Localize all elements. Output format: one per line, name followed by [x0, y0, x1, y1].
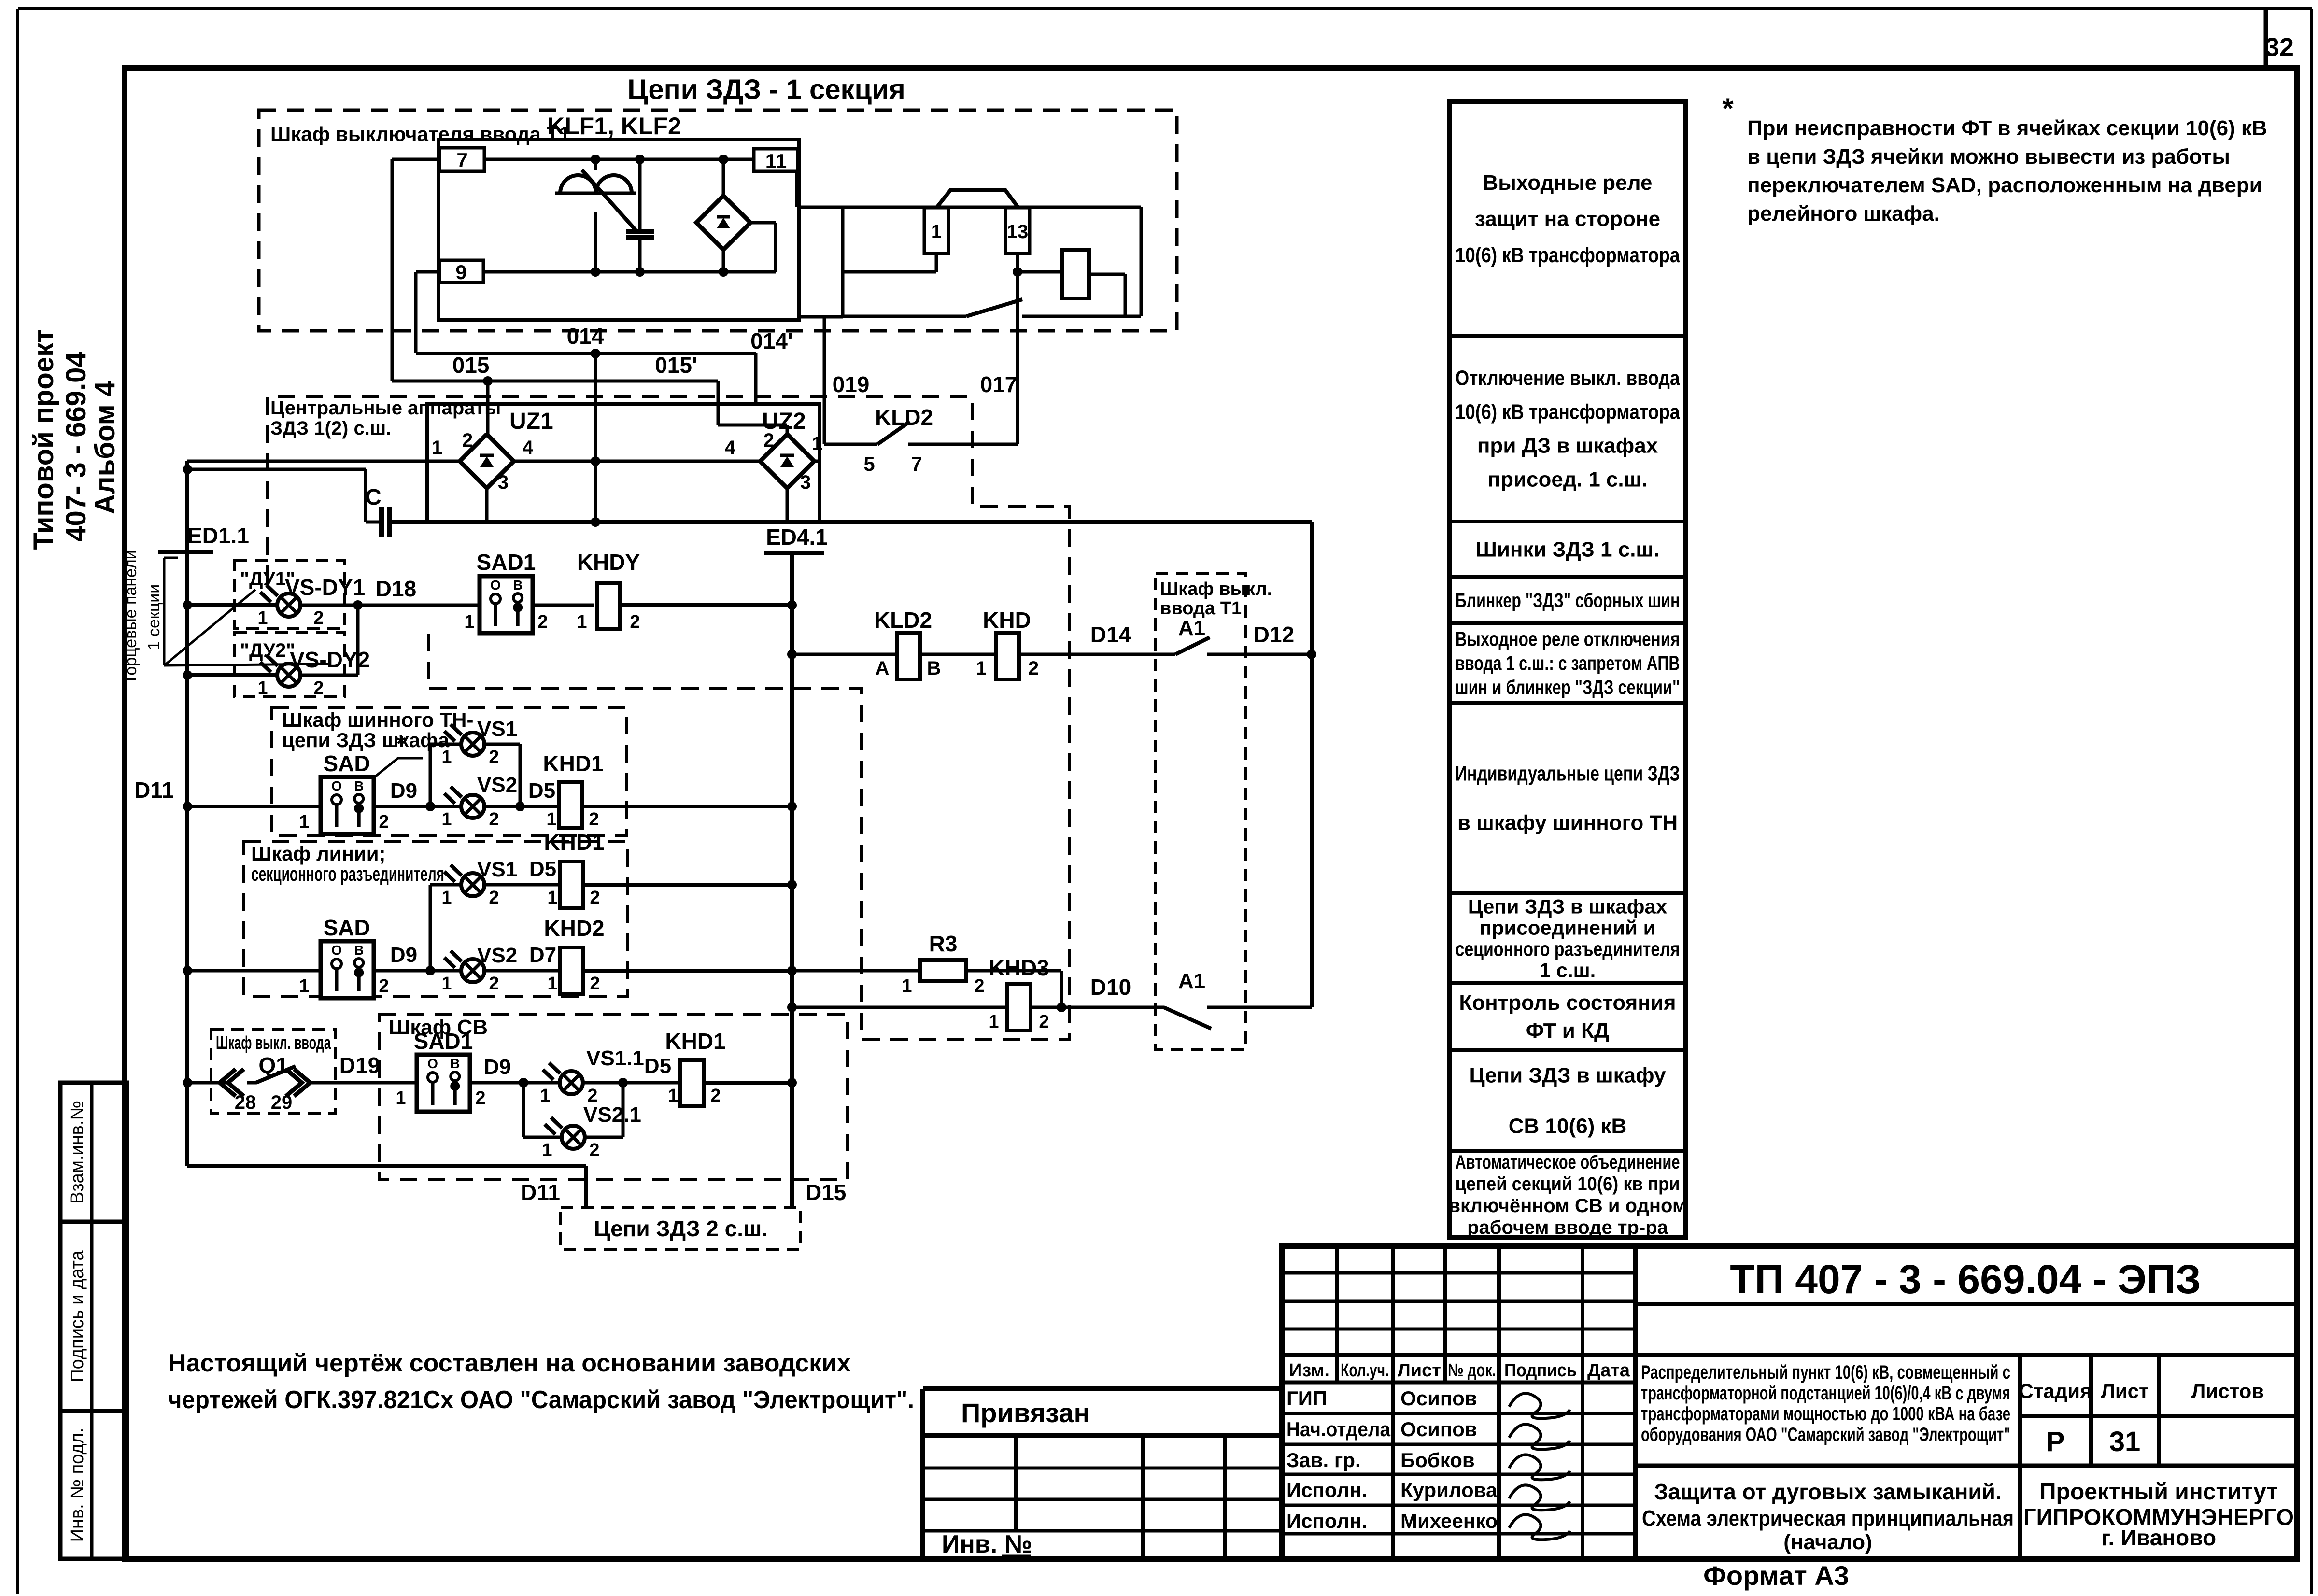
svg-text:3: 3	[800, 472, 811, 493]
svg-text:ввода Т1: ввода Т1	[1160, 598, 1242, 619]
svg-text:D11: D11	[521, 1180, 560, 1205]
svg-text:чертежей ОГК.397.821Сх ОАО "Са: чертежей ОГК.397.821Сх ОАО "Самарский за…	[168, 1386, 914, 1414]
svg-text:D5: D5	[529, 857, 556, 881]
svg-text:Центральные аппараты: Центральные аппараты	[270, 397, 501, 419]
svg-text:D5: D5	[644, 1054, 671, 1078]
svg-text:Осипов: Осипов	[1400, 1418, 1477, 1441]
svg-text:Автоматическое объединение: Автоматическое объединение	[1456, 1152, 1680, 1173]
svg-text:1: 1	[257, 608, 268, 628]
svg-text:R3: R3	[929, 931, 958, 956]
svg-text:Взам.инв.№: Взам.инв.№	[67, 1101, 87, 1204]
svg-text:D10: D10	[1090, 975, 1131, 1000]
svg-text:2: 2	[379, 976, 389, 996]
svg-text:Привязан: Привязан	[961, 1398, 1090, 1428]
svg-text:Инв. №: Инв. №	[942, 1530, 1032, 1558]
svg-text:2: 2	[489, 747, 499, 767]
svg-text:Михеенко: Михеенко	[1400, 1510, 1498, 1532]
svg-text:1: 1	[432, 437, 442, 458]
svg-text:1: 1	[547, 974, 557, 994]
svg-text:015: 015	[452, 353, 490, 378]
svg-text:*: *	[1722, 92, 1734, 125]
svg-text:KLF1, KLF2: KLF1, KLF2	[547, 113, 681, 140]
svg-text:KHD3: KHD3	[989, 955, 1049, 980]
svg-text:2: 2	[489, 888, 499, 908]
svg-text:1: 1	[668, 1086, 678, 1106]
svg-text:№ док.: № док.	[1448, 1360, 1496, 1381]
svg-text:9: 9	[455, 261, 466, 283]
svg-text:1: 1	[547, 888, 557, 908]
svg-text:SAD1: SAD1	[414, 1029, 473, 1054]
svg-text:Зав. гр.: Зав. гр.	[1286, 1449, 1361, 1471]
svg-text:Р: Р	[2046, 1426, 2065, 1457]
svg-text:присоединений и: присоединений и	[1480, 917, 1656, 939]
svg-text:017: 017	[980, 372, 1018, 397]
svg-text:SAD: SAD	[323, 915, 370, 940]
svg-text:Курилова: Курилова	[1400, 1479, 1498, 1501]
svg-text:1: 1	[989, 1012, 999, 1032]
svg-text:О: О	[490, 578, 501, 593]
svg-text:Кол.уч.: Кол.уч.	[1341, 1360, 1389, 1381]
svg-text:VS1: VS1	[477, 858, 517, 881]
svg-text:A1: A1	[1178, 616, 1205, 640]
svg-text:4: 4	[523, 437, 534, 458]
svg-text:Инв. № подл.: Инв. № подл.	[67, 1428, 87, 1542]
svg-text:О: О	[331, 943, 342, 958]
svg-text:Нач.отдела: Нач.отдела	[1286, 1418, 1391, 1441]
svg-text:D9: D9	[390, 779, 417, 803]
svg-text:рабочем вводе тр-ра: рабочем вводе тр-ра	[1467, 1217, 1668, 1238]
svg-text:*: *	[396, 731, 406, 757]
svg-text:оборудования ОАО "Самарский за: оборудования ОАО "Самарский завод "Элект…	[1641, 1424, 2010, 1445]
svg-text:31: 31	[2109, 1426, 2141, 1457]
svg-text:4: 4	[725, 437, 736, 458]
svg-text:019: 019	[833, 372, 870, 397]
svg-text:A1: A1	[1178, 969, 1205, 993]
svg-text:При неисправности ФТ в ячейках: При неисправности ФТ в ячейках секции 10…	[1747, 116, 2267, 140]
svg-text:присоед. 1 с.ш.: присоед. 1 с.ш.	[1488, 468, 1648, 492]
svg-text:Цепи ЗДЗ - 1 секция: Цепи ЗДЗ - 1 секция	[627, 74, 905, 105]
svg-text:7: 7	[456, 149, 467, 171]
svg-text:32: 32	[2265, 33, 2294, 62]
svg-text:В: В	[513, 578, 523, 593]
svg-text:трансформаторной подстанцией 1: трансформаторной подстанцией 10(6)/0,4 к…	[1641, 1383, 2010, 1404]
svg-text:1: 1	[902, 976, 912, 996]
svg-text:VS1.1: VS1.1	[586, 1046, 644, 1070]
svg-text:B: B	[927, 658, 941, 679]
svg-text:VS2: VS2	[477, 773, 517, 797]
svg-text:ТП 407 - 3 - 669.04 - ЭПЗ: ТП 407 - 3 - 669.04 - ЭПЗ	[1730, 1257, 2201, 1302]
svg-text:В: В	[354, 943, 364, 958]
svg-text:D9: D9	[390, 943, 417, 967]
svg-text:C: C	[365, 484, 381, 509]
svg-text:2: 2	[589, 1140, 599, 1160]
svg-text:Схема электрическая принципиал: Схема электрическая принципиальная	[1642, 1506, 2014, 1531]
svg-text:В: В	[354, 778, 364, 793]
svg-text:SAD1: SAD1	[477, 550, 536, 575]
svg-text:О: О	[427, 1056, 438, 1071]
svg-text:Шкаф линии;: Шкаф линии;	[251, 842, 386, 865]
svg-text:UZ2: UZ2	[762, 409, 806, 434]
svg-text:2: 2	[489, 974, 499, 994]
svg-text:Осипов: Осипов	[1400, 1387, 1477, 1410]
svg-text:цепи ЗДЗ шкафа: цепи ЗДЗ шкафа	[282, 729, 450, 751]
svg-text:1: 1	[441, 747, 452, 767]
svg-text:Выходные реле: Выходные реле	[1483, 171, 1653, 195]
svg-text:при ДЗ в шкафах: при ДЗ в шкафах	[1477, 434, 1658, 458]
svg-text:Настоящий чертёж составлен на: Настоящий чертёж составлен на основании …	[168, 1349, 851, 1377]
svg-text:1: 1	[396, 1088, 406, 1108]
svg-text:Исполн.: Исполн.	[1286, 1479, 1367, 1501]
svg-text:KLD2: KLD2	[874, 607, 932, 633]
svg-text:014': 014'	[750, 328, 793, 353]
svg-text:2: 2	[590, 888, 600, 908]
svg-text:шин и блинкер "ЗДЗ секции": шин и блинкер "ЗДЗ секции"	[1456, 676, 1680, 699]
svg-text:28: 28	[235, 1092, 256, 1113]
svg-text:ED1.1: ED1.1	[187, 523, 249, 548]
svg-text:2: 2	[313, 608, 324, 628]
svg-text:Проектный институт: Проектный институт	[2039, 1479, 2278, 1505]
svg-text:Отключение выкл. ввода: Отключение выкл. ввода	[1456, 367, 1680, 390]
svg-text:Цепи ЗДЗ в шкафах: Цепи ЗДЗ в шкафах	[1468, 895, 1668, 918]
svg-text:Шкаф выключателя ввода Т1: Шкаф выключателя ввода Т1	[270, 123, 570, 145]
svg-text:2: 2	[475, 1088, 485, 1108]
svg-text:Исполн.: Исполн.	[1286, 1510, 1367, 1532]
svg-text:1: 1	[257, 678, 268, 698]
svg-text:Альбом 4: Альбом 4	[89, 381, 121, 514]
svg-text:KHD1: KHD1	[543, 751, 603, 776]
svg-text:VS1: VS1	[477, 717, 517, 741]
svg-text:Защита от дуговых замыканий.: Защита от дуговых замыканий.	[1654, 1479, 2001, 1504]
svg-text:D14: D14	[1090, 622, 1131, 647]
svg-text:D19: D19	[339, 1053, 380, 1078]
svg-text:1: 1	[577, 612, 587, 632]
svg-text:11: 11	[765, 150, 787, 172]
svg-text:1: 1	[976, 658, 987, 679]
svg-text:Подпись и дата: Подпись и дата	[67, 1250, 87, 1382]
svg-text:2: 2	[974, 976, 984, 996]
svg-text:D7: D7	[529, 943, 556, 967]
svg-text:ED4.1: ED4.1	[766, 524, 828, 550]
svg-text:2: 2	[379, 812, 389, 832]
svg-text:13: 13	[1007, 221, 1029, 242]
svg-text:1 с.ш.: 1 с.ш.	[1540, 959, 1596, 982]
svg-text:1: 1	[540, 1086, 550, 1106]
svg-text:СВ 10(6) кВ: СВ 10(6) кВ	[1509, 1115, 1627, 1138]
svg-text:2: 2	[590, 974, 600, 994]
svg-text:г. Иваново: г. Иваново	[2101, 1525, 2216, 1550]
svg-text:D11: D11	[134, 777, 174, 803]
svg-text:Контроль состояния: Контроль состояния	[1459, 991, 1676, 1015]
svg-text:включённом СВ и одном: включённом СВ и одном	[1448, 1195, 1686, 1216]
svg-text:Типовой проект: Типовой проект	[28, 329, 59, 550]
svg-text:1: 1	[441, 888, 452, 908]
svg-text:Цепи ЗДЗ 2 с.ш.: Цепи ЗДЗ 2 с.ш.	[594, 1216, 768, 1241]
svg-text:Листов: Листов	[2191, 1380, 2264, 1402]
svg-text:1: 1	[812, 433, 822, 454]
svg-text:Лист: Лист	[1398, 1360, 1441, 1381]
svg-text:Бобков: Бобков	[1400, 1449, 1475, 1471]
svg-text:ЗДЗ 1(2) с.ш.: ЗДЗ 1(2) с.ш.	[270, 418, 391, 439]
svg-text:Шкаф выкл.: Шкаф выкл.	[1160, 579, 1272, 599]
svg-text:1: 1	[464, 612, 474, 632]
svg-text:1: 1	[546, 809, 556, 830]
svg-text:2: 2	[462, 430, 473, 451]
svg-text:KHD1: KHD1	[665, 1029, 725, 1054]
svg-text:в цепи ЗДЗ ячейки можно вывест: в цепи ЗДЗ ячейки можно вывести из работ…	[1747, 145, 2230, 169]
svg-text:D9: D9	[484, 1055, 511, 1079]
svg-text:Формат А3: Формат А3	[1703, 1560, 1849, 1591]
svg-text:407- 3 - 669.04: 407- 3 - 669.04	[60, 352, 92, 541]
svg-text:Подпись: Подпись	[1504, 1360, 1577, 1381]
svg-text:2: 2	[710, 1086, 721, 1106]
svg-text:1: 1	[299, 976, 309, 996]
svg-text:D12: D12	[1254, 622, 1294, 647]
svg-text:1: 1	[931, 221, 942, 242]
svg-text:Дата: Дата	[1587, 1360, 1630, 1381]
svg-text:A: A	[876, 658, 890, 679]
svg-text:SAD: SAD	[323, 751, 370, 776]
svg-text:Блинкер "ЗДЗ" сборных шин: Блинкер "ЗДЗ" сборных шин	[1456, 589, 1680, 612]
svg-text:7: 7	[911, 452, 922, 475]
svg-text:переключателем SAD, расположен: переключателем SAD, расположенным на две…	[1747, 173, 2262, 197]
svg-text:секционного разъединителя: секционного разъединителя	[251, 862, 444, 885]
svg-text:Распределительный пункт 10(6): Распределительный пункт 10(6) кВ, совмещ…	[1641, 1362, 2010, 1383]
svg-text:2: 2	[489, 809, 499, 830]
svg-text:014: 014	[567, 324, 604, 349]
svg-text:Стадия: Стадия	[2019, 1380, 2092, 1402]
svg-text:защит на стороне: защит на стороне	[1475, 207, 1660, 231]
svg-text:цепей секций 10(6) кв при: цепей секций 10(6) кв при	[1456, 1173, 1680, 1195]
svg-text:10(6) кВ трансформатора: 10(6) кВ трансформатора	[1456, 243, 1680, 267]
svg-text:О: О	[331, 778, 342, 793]
svg-text:2: 2	[1039, 1012, 1049, 1032]
svg-text:D5: D5	[528, 779, 555, 803]
svg-text:(начало): (начало)	[1783, 1530, 1872, 1554]
svg-text:3: 3	[498, 472, 509, 493]
svg-text:Изм.: Изм.	[1289, 1360, 1329, 1381]
svg-text:VS2: VS2	[477, 944, 517, 967]
svg-text:D15: D15	[806, 1180, 846, 1205]
svg-text:015': 015'	[655, 353, 697, 378]
svg-text:KHD2: KHD2	[544, 916, 604, 941]
svg-text:Выходное реле отключения: Выходное реле отключения	[1456, 628, 1680, 650]
svg-text:1: 1	[441, 974, 452, 994]
svg-text:D18: D18	[376, 576, 416, 601]
svg-text:1: 1	[299, 812, 309, 832]
svg-text:1 секции: 1 секции	[145, 584, 163, 650]
svg-text:2: 2	[589, 809, 599, 830]
svg-text:ГИП: ГИП	[1286, 1387, 1327, 1410]
svg-text:KHDY: KHDY	[577, 550, 640, 575]
svg-text:Индивидуальные цепи ЗДЗ: Индивидуальные цепи ЗДЗ	[1456, 762, 1680, 786]
svg-text:5: 5	[863, 452, 875, 475]
svg-text:Шинки ЗДЗ 1 с.ш.: Шинки ЗДЗ 1 с.ш.	[1476, 538, 1660, 562]
svg-text:в шкафу шинного ТН: в шкафу шинного ТН	[1457, 811, 1678, 835]
svg-text:2: 2	[1028, 658, 1039, 679]
svg-text:UZ1: UZ1	[509, 409, 553, 434]
svg-text:трансформаторами мощностью до: трансформаторами мощностью до 1000 кВА н…	[1641, 1403, 2010, 1425]
svg-text:Шкаф шинного ТН-: Шкаф шинного ТН-	[282, 708, 473, 731]
svg-text:Лист: Лист	[2101, 1380, 2148, 1402]
svg-text:Шкаф выкл. ввода: Шкаф выкл. ввода	[216, 1033, 331, 1053]
svg-text:VS2.1: VS2.1	[583, 1103, 641, 1127]
svg-text:KHD: KHD	[983, 607, 1031, 633]
svg-text:10(6) кВ трансформатора: 10(6) кВ трансформатора	[1456, 400, 1680, 424]
svg-text:ФТ и КД: ФТ и КД	[1526, 1019, 1609, 1043]
svg-text:сеционного разъединителя: сеционного разъединителя	[1456, 938, 1680, 960]
svg-text:Цепи ЗДЗ в шкафу: Цепи ЗДЗ в шкафу	[1469, 1064, 1666, 1088]
svg-text:2: 2	[630, 612, 640, 632]
svg-text:KLD2: KLD2	[875, 405, 933, 430]
svg-text:Торцевые панели: Торцевые панели	[122, 550, 140, 684]
svg-text:2: 2	[313, 678, 324, 698]
svg-text:2: 2	[537, 612, 548, 632]
svg-text:29: 29	[271, 1092, 293, 1113]
svg-text:релейного шкафа.: релейного шкафа.	[1747, 202, 1940, 226]
svg-text:1: 1	[542, 1140, 552, 1160]
svg-text:В: В	[450, 1056, 460, 1071]
svg-text:ввода 1 с.ш.: с запретом АПВ: ввода 1 с.ш.: с запретом АПВ	[1456, 652, 1680, 675]
svg-text:1: 1	[441, 809, 452, 830]
svg-text:KHD1: KHD1	[544, 830, 604, 855]
